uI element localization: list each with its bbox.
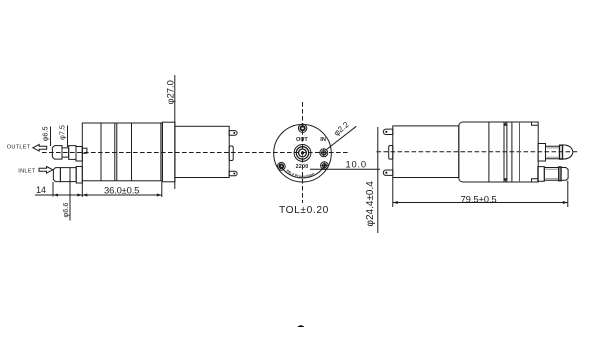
inner seam arc [279,164,326,178]
pump head division lines [100,123,102,181]
phi2.2 leader line [327,126,357,149]
motor body left view [175,126,229,177]
bottom-right screw [321,162,329,170]
right screw (IN port) [320,149,328,157]
dim 79.5 left extension [392,178,394,208]
svg-text:OUTLET: OUTLET [7,144,31,150]
bottom edge notch [532,179,539,182]
arrowheads [53,194,58,197]
top screw [298,124,306,132]
motor terminal bottom [229,171,237,176]
pump head body [82,123,162,181]
10.0 leader line [310,168,380,170]
svg-text:2200: 2200 [296,164,309,170]
outer circle [274,124,332,182]
svg-text:φ27.0: φ27.0 [165,80,176,104]
clamp ring [162,122,175,182]
dim 14 extension [52,182,54,197]
phi24.4 dimension line [377,127,379,233]
svg-text:10.0: 10.0 [346,158,367,169]
head division lines [488,122,490,182]
dimension line 79.5 [393,202,568,204]
bottom-left screw [277,162,285,170]
upper nozzle right view [538,144,546,162]
motor terminal top [229,131,237,136]
seam arrow marks [504,122,507,126]
svg-text:TOL±0.20: TOL±0.20 [279,205,329,216]
pump head right view [459,122,538,182]
centerline right view [377,151,579,153]
phi6.6 extension line [69,168,71,221]
svg-text:φ24.4±0.4: φ24.4±0.4 [365,181,376,227]
inlet arrow [39,167,53,174]
dim 79.5 right extension [567,181,569,208]
svg-text:36.0±0.5: 36.0±0.5 [104,184,139,195]
motor terminal top right view [383,129,392,134]
svg-text:INLET: INLET [18,168,35,174]
center boss [294,145,311,162]
svg-text:14: 14 [36,185,46,195]
lower nozzle right view [538,167,545,182]
dim 36.0 right extension [161,182,163,197]
outlet arrow [33,145,47,152]
svg-text:PN.4 Production: PN.4 Production [286,169,316,179]
phi27.0 extension line [174,75,176,189]
inlet fitting [53,168,60,182]
svg-text:φ2.2: φ2.2 [332,120,351,138]
centerline left view [42,152,348,154]
svg-text:OUT: OUT [296,137,308,143]
curved bottom text [286,171,318,177]
outlet fitting [52,146,62,160]
phi7.5 extension line [67,126,69,148]
top edge notch [532,122,539,125]
phi6.5 extension line [50,127,52,147]
svg-text:IN: IN [320,137,326,143]
motor bearing boss [229,146,233,161]
svg-text:φ6.6: φ6.6 [61,203,70,218]
motor body right view [393,126,459,178]
bottom mark [298,325,305,327]
dim 36.0 left extension [81,181,83,197]
svg-text:79.5±0.5: 79.5±0.5 [461,195,497,206]
arrowheads 79.5 [393,201,398,204]
vertical centerline [302,102,304,203]
svg-text:φ6.5: φ6.5 [40,126,49,141]
dimension line 14 + 36.0 [35,194,162,196]
front face tab [82,148,87,153]
motor bearing boss right view [389,146,393,160]
motor terminal bottom right view [383,170,393,175]
svg-text:φ7.5: φ7.5 [57,125,66,140]
